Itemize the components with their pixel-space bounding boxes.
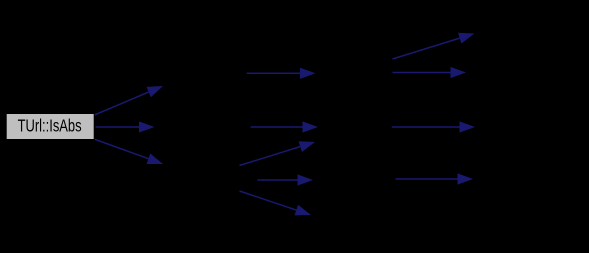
svg-text:TUrl::IsAbs: TUrl::IsAbs [18, 116, 82, 136]
edge D1 [393, 33, 475, 59]
edge D3 [392, 121, 475, 132]
edge C1 [240, 141, 316, 165]
edge D4 [396, 173, 474, 184]
node TUrl::IsAbs [6, 114, 94, 140]
edge A3 [93, 139, 164, 165]
edge C2 [258, 174, 314, 185]
edge B2 [251, 121, 319, 132]
edge B1 [247, 68, 316, 79]
edge D2 [393, 67, 467, 78]
edge C3 [240, 191, 312, 215]
edge A1 [92, 86, 163, 116]
edge A2 [96, 121, 155, 132]
